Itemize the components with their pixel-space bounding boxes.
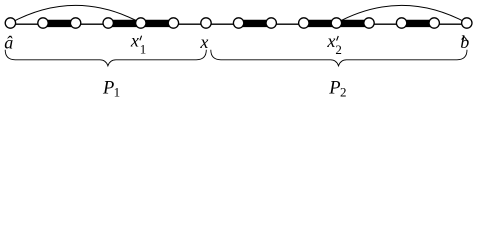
- thick edge v2-v3: [43, 20, 76, 27]
- svg-text:2: 2: [335, 42, 342, 57]
- chord arc from node a-hat to node x1': [10, 5, 140, 23]
- node v14: [429, 18, 439, 28]
- node v12: [364, 18, 374, 28]
- node v1 (a-hat): [5, 18, 15, 28]
- node v4: [103, 18, 113, 28]
- thick edge v8-v9: [239, 20, 272, 27]
- thin edge v1-v2: [10, 23, 43, 25]
- node v13: [396, 18, 406, 28]
- node v5 (x1'): [136, 18, 146, 28]
- node v10: [299, 18, 309, 28]
- node v3: [70, 18, 80, 28]
- thin edge v12-v13: [369, 23, 402, 25]
- thin edge v7-v8: [206, 23, 239, 25]
- svg-text:â: â: [4, 33, 13, 53]
- svg-text:x: x: [130, 31, 139, 51]
- node v9: [266, 18, 276, 28]
- svg-text:P: P: [328, 79, 340, 99]
- label x2-prime prime-mark: [337, 36, 339, 41]
- node v15 (b-hat): [462, 18, 472, 28]
- node v7 (x): [201, 18, 211, 28]
- thin edge v9-v10: [271, 23, 304, 25]
- thin edge v6-v7: [173, 23, 206, 25]
- underbrace P1: [5, 50, 206, 66]
- node v11 (x2'): [331, 18, 341, 28]
- chord arc from node x2' to node b-hat: [336, 5, 466, 23]
- node v8: [233, 18, 243, 28]
- thick edge v11-v12: [336, 20, 369, 27]
- node v6: [168, 18, 178, 28]
- svg-text:1: 1: [114, 85, 121, 100]
- thin edge v14-v15: [434, 23, 467, 25]
- thick edge v5-v6: [141, 20, 174, 27]
- svg-text:P: P: [102, 79, 114, 99]
- node v2: [38, 18, 48, 28]
- thick edge v13-v14: [402, 20, 435, 27]
- svg-text:b: b: [460, 32, 469, 52]
- thick edge v4-v5: [108, 20, 141, 27]
- svg-text:1: 1: [140, 41, 147, 56]
- thick edge v10-v11: [304, 20, 337, 27]
- label b-hat hat-mark: [462, 37, 467, 40]
- thin edge v3-v4: [76, 23, 109, 25]
- label x1-prime prime-mark: [140, 36, 142, 41]
- svg-text:x: x: [199, 32, 208, 52]
- svg-text:2: 2: [340, 85, 347, 100]
- svg-text:x: x: [326, 31, 335, 51]
- underbrace P2: [211, 50, 467, 66]
